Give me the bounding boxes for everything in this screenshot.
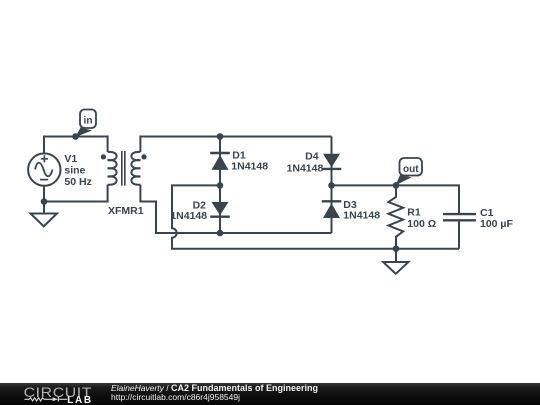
svg-text:sine: sine [64,164,85,176]
svg-text:in: in [84,115,93,126]
svg-text:R1: R1 [407,207,421,219]
svg-text:50 Hz: 50 Hz [64,176,91,188]
svg-text:XFMR1: XFMR1 [108,205,144,217]
svg-text:100 µF: 100 µF [480,218,513,230]
svg-text:1N4148: 1N4148 [343,209,380,221]
svg-text:1N4148: 1N4148 [231,160,268,172]
svg-text:100 Ω: 100 Ω [407,218,436,230]
svg-text:D4: D4 [305,151,319,163]
svg-text:1N4148: 1N4148 [287,162,324,174]
svg-text:out: out [403,164,419,175]
svg-text:V1: V1 [64,153,77,165]
svg-text:1N4148: 1N4148 [170,210,207,222]
svg-text:LAB: LAB [67,395,92,405]
